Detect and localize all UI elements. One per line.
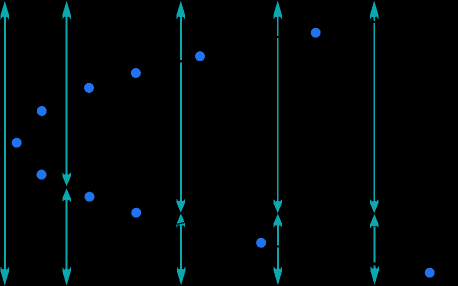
arrow A5 top segment double arrow <box>370 1 379 214</box>
sketch slash across A3 split arrowhead <box>177 222 186 224</box>
shaft gap on A4 bottom segment <box>276 246 280 248</box>
arrow A3 bottom segment double arrow <box>177 214 186 286</box>
arrow A4 bottom segment double arrow <box>274 214 283 286</box>
dot 6 <box>131 68 141 78</box>
arrow A1 full-height double arrow <box>1 1 10 286</box>
dot 4 <box>84 83 94 93</box>
dot 7 <box>131 208 141 218</box>
shaft gap on A5 bottom segment <box>373 263 377 266</box>
arrow A2 bottom segment double arrow <box>62 188 71 285</box>
arrow A4 top segment double arrow <box>273 1 282 214</box>
shaft gap on A3 top segment <box>179 60 183 63</box>
dot 10 <box>311 28 321 38</box>
dot 11 <box>425 268 435 278</box>
dot 1 <box>12 138 22 148</box>
dot 8 <box>195 51 205 61</box>
dot 5 <box>85 192 95 202</box>
dot 3 <box>37 170 47 180</box>
arrow A5 bottom segment double arrow <box>370 214 379 285</box>
shaft gap on A5 top segment <box>372 21 376 23</box>
shaft gap on A4 top segment <box>276 36 280 38</box>
dot 2 <box>37 106 47 116</box>
arrow A2 top segment double arrow <box>62 1 71 187</box>
arrow A3 top segment double arrow <box>177 1 186 213</box>
dot 9 <box>256 238 266 248</box>
